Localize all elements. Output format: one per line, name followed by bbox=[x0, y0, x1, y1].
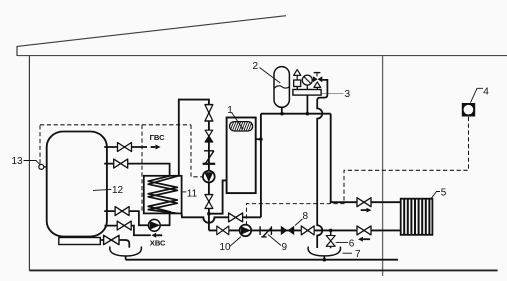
drain line along floor bbox=[126, 259, 398, 261]
label 7 bbox=[343, 252, 353, 254]
XVS pump bbox=[148, 219, 160, 231]
tank drain pipe bbox=[100, 240, 129, 248]
sensor 13 bbox=[39, 164, 44, 169]
XVS pump outlet pipe bbox=[160, 213, 169, 225]
roof left edge bbox=[16, 46, 18, 56]
label 11 bbox=[183, 191, 187, 193]
svg-text:1: 1 bbox=[227, 105, 233, 116]
boiler 1 bbox=[227, 118, 256, 194]
boiler outlet stub bbox=[256, 138, 261, 140]
valve on XVS inlet pipe bbox=[117, 221, 131, 230]
tank 12 body bbox=[47, 132, 107, 237]
dashed line: right edge to boiler-loop pump bbox=[191, 125, 203, 177]
label 3 bbox=[322, 93, 344, 95]
drain funnel left bbox=[110, 246, 142, 256]
valve C bbox=[301, 226, 314, 235]
boiler-loop top pipe bbox=[179, 100, 209, 176]
heat exchanger 11 bbox=[144, 176, 182, 214]
GVS flow arrow bbox=[151, 146, 156, 148]
valve on tank drain bbox=[104, 235, 119, 244]
GVS outlet pipe bbox=[104, 146, 147, 148]
svg-text:12: 12 bbox=[112, 185, 124, 196]
XVS flow arrow bbox=[152, 233, 157, 238]
left wall bbox=[28, 56, 30, 271]
dashed control line: sensor box left edge bbox=[39, 125, 41, 164]
valve on riser (top) bbox=[205, 105, 213, 121]
svg-text:9: 9 bbox=[282, 242, 288, 253]
label 1 bbox=[232, 112, 243, 128]
svg-text:13: 13 bbox=[12, 156, 24, 167]
label 13 bbox=[24, 161, 41, 166]
interior wall bbox=[382, 56, 384, 276]
valve on tank-to-HX pipe bbox=[114, 159, 128, 168]
svg-text:10: 10 bbox=[220, 242, 232, 253]
radiator 5 bbox=[401, 199, 433, 235]
boiler return pipe bbox=[209, 180, 227, 213]
XVS inlet pipe bbox=[105, 226, 151, 236]
svg-text:8: 8 bbox=[303, 211, 309, 222]
valve D on return bbox=[357, 226, 371, 235]
balancing valve 9 bbox=[259, 226, 261, 235]
tank-to-HX pipe bbox=[104, 164, 169, 177]
label 9 bbox=[268, 235, 281, 246]
safety valve bbox=[316, 87, 318, 89]
valve B left of pump 10 bbox=[217, 226, 229, 235]
funnel outlet bbox=[125, 256, 127, 260]
return flow arrow bbox=[358, 237, 363, 242]
balancing valve on riser bbox=[204, 150, 214, 152]
HX-to-boiler pipe with dip crossing bbox=[182, 213, 261, 223]
valve 6 drop bbox=[330, 230, 332, 248]
svg-text:5: 5 bbox=[441, 188, 447, 199]
expansion vessel 2 bbox=[274, 67, 289, 108]
svg-text:ХВС: ХВС bbox=[150, 238, 166, 247]
svg-text:ГВС: ГВС bbox=[150, 133, 165, 142]
label 12 bbox=[93, 189, 111, 190]
dashed line: middle vertical at x=142 bbox=[141, 125, 143, 214]
label 10 bbox=[230, 237, 241, 247]
valve on GVS pipe bbox=[118, 143, 132, 152]
dashed control line: thermostat to pump 10 bbox=[247, 117, 469, 224]
riser pipe segments bbox=[208, 105, 210, 231]
valve on riser (bottom) bbox=[205, 195, 213, 209]
pressure gauge bbox=[306, 85, 308, 89]
dashed control line: top edge bbox=[40, 124, 191, 126]
svg-text:4: 4 bbox=[483, 87, 489, 98]
tank base skirt bbox=[59, 238, 101, 245]
svg-text:2: 2 bbox=[253, 61, 259, 72]
svg-text:7: 7 bbox=[355, 249, 361, 260]
valve on radiator supply bbox=[357, 198, 371, 207]
pump 10 bbox=[240, 225, 252, 237]
thermostat 4 bbox=[462, 103, 475, 117]
radiator supply riser bbox=[331, 114, 401, 203]
label 6 bbox=[336, 241, 349, 243]
valve 8 (filled) bbox=[281, 226, 288, 235]
tank-to-pump pipe bbox=[104, 211, 148, 225]
label 2 bbox=[260, 68, 281, 84]
svg-text:6: 6 bbox=[349, 239, 355, 250]
boiler-loop pump bbox=[203, 171, 215, 183]
check valve on riser bbox=[205, 130, 213, 136]
svg-text:3: 3 bbox=[345, 89, 351, 100]
bottom return pipe bbox=[209, 229, 401, 231]
valve on tank-to-pump pipe bbox=[115, 207, 129, 216]
label 4 bbox=[471, 88, 484, 102]
safety group 3 manifold bar bbox=[293, 90, 321, 96]
boiler riser right bbox=[260, 114, 262, 218]
valve A on HX-to-boiler pipe bbox=[229, 213, 243, 222]
supply manifold pipe bbox=[261, 113, 331, 115]
floor line bbox=[29, 269, 497, 271]
safety valve drain pipe with crossing hops bbox=[317, 80, 327, 248]
drain funnel 7 bbox=[308, 247, 340, 256]
roof sloped line bbox=[17, 16, 286, 47]
svg-text:11: 11 bbox=[187, 189, 198, 200]
supply flow arrow bbox=[361, 209, 367, 211]
junction dot riser/boiler-return bbox=[207, 212, 211, 216]
label 8 bbox=[295, 219, 303, 226]
ceiling line bbox=[17, 55, 507, 57]
label 5 bbox=[431, 192, 440, 199]
junction dot valve6 tee bbox=[329, 229, 333, 233]
air vent bbox=[296, 87, 298, 90]
